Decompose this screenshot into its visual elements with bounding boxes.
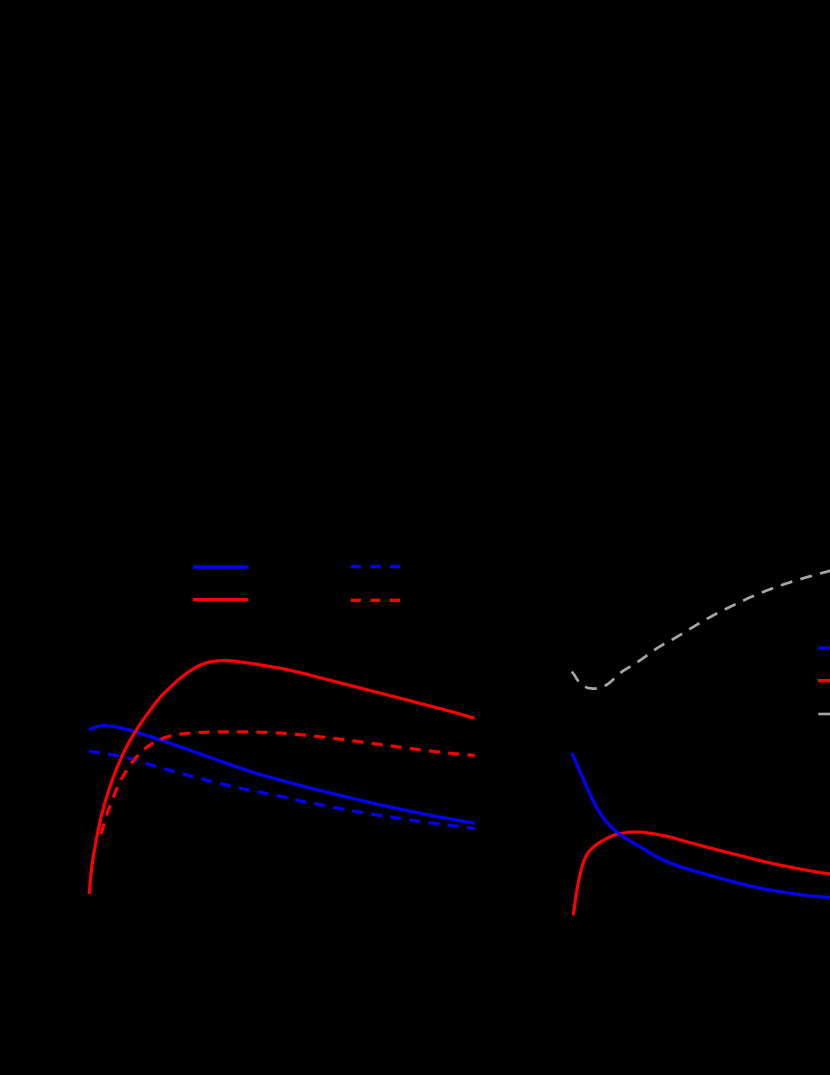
left panel: blue dashed curve <box>89 751 475 828</box>
right panel: blue solid curve <box>572 753 830 898</box>
right panel: red solid curve <box>573 832 830 916</box>
legend: gray line sample (right panel, clipped) <box>818 713 830 716</box>
legend: red dashed line sample (left panel) <box>351 599 400 602</box>
right panel: gray dashed curve <box>572 570 830 688</box>
legend: blue dashed line sample (left panel) <box>351 565 400 568</box>
legend: blue solid line sample (left panel) <box>193 565 248 568</box>
left panel: red solid curve <box>89 661 474 894</box>
left panel: red dashed curve <box>101 732 475 834</box>
left panel: blue solid curve <box>89 726 475 824</box>
legend: blue line sample (right panel, clipped) <box>818 646 830 649</box>
legend: red solid line sample (left panel) <box>193 598 248 601</box>
legend: red line sample (right panel, clipped) <box>818 679 830 682</box>
